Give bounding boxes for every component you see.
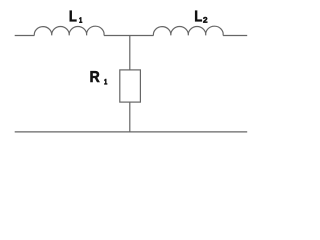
label L2-2 bbox=[203, 17, 207, 23]
wire top-right bbox=[223, 35, 247, 37]
label L2-L bbox=[195, 11, 202, 22]
wire top-middle bbox=[104, 35, 153, 37]
resistor R1 bbox=[120, 70, 141, 102]
label R1-1 bbox=[104, 79, 107, 84]
wire shunt upper bbox=[129, 36, 131, 70]
wire shunt lower bbox=[129, 102, 131, 132]
label L1-L bbox=[70, 11, 77, 22]
label R1-R bbox=[91, 71, 100, 82]
wire bottom bbox=[15, 131, 248, 133]
inductor L2 bbox=[153, 26, 223, 35]
inductor L1 bbox=[34, 26, 104, 35]
label L1-1 bbox=[79, 17, 82, 22]
wire top-left bbox=[15, 35, 35, 37]
